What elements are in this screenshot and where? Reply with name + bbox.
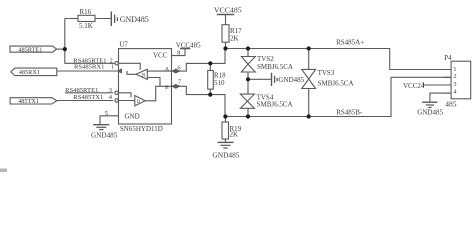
svg-text:SMBJ6.5CA: SMBJ6.5CA [257,101,293,109]
svg-text:TVS3: TVS3 [318,69,335,77]
svg-text:4: 4 [109,94,113,101]
svg-text:TVS2: TVS2 [257,55,274,63]
svg-text:RS485RX1: RS485RX1 [74,64,104,71]
svg-text:RS485A+: RS485A+ [336,39,364,47]
svg-text:485: 485 [445,99,457,108]
svg-text:VCC485: VCC485 [176,42,201,50]
svg-text:GND485: GND485 [417,108,443,116]
svg-text:7: 7 [178,79,182,86]
svg-text:P4: P4 [444,54,452,62]
svg-text:VCC485: VCC485 [214,5,242,14]
svg-text:R: R [142,73,146,78]
svg-text:GND485: GND485 [120,15,149,24]
svg-text:485TX1: 485TX1 [18,98,39,105]
svg-text:6: 6 [177,65,181,72]
svg-text:U7: U7 [119,41,128,49]
svg-text:4: 4 [453,89,457,96]
svg-text:SMBJ6.5CA: SMBJ6.5CA [257,63,293,71]
svg-text:A: A [165,66,169,72]
svg-text:GND: GND [125,113,140,121]
svg-text:B: B [165,85,169,91]
svg-text:VCC24: VCC24 [403,82,425,90]
svg-text:510: 510 [214,79,225,87]
svg-text:1: 1 [453,66,456,73]
svg-text:2: 2 [453,73,456,80]
svg-text:485RX1: 485RX1 [19,69,40,76]
svg-text:5.1K: 5.1K [79,22,93,30]
svg-text:GND485: GND485 [279,76,305,84]
svg-text:GND485: GND485 [212,150,239,159]
svg-text:2K: 2K [230,35,239,43]
svg-text:VCC: VCC [153,51,168,59]
svg-text:2K: 2K [230,131,239,139]
svg-text:RS485RTE1: RS485RTE1 [65,87,98,94]
svg-text:SMBJ6.5CA: SMBJ6.5CA [318,79,354,87]
svg-text:485RTE1: 485RTE1 [18,46,42,53]
svg-text:GND485: GND485 [91,132,118,140]
svg-text:RS485B-: RS485B- [336,108,363,116]
svg-text:D: D [137,100,141,105]
svg-text:R16: R16 [80,8,92,16]
svg-text:3: 3 [453,81,457,88]
svg-text:1: 1 [111,64,114,71]
svg-text:RS485TX1: RS485TX1 [73,94,103,101]
svg-text:SN65HYD11D: SN65HYD11D [120,125,163,133]
